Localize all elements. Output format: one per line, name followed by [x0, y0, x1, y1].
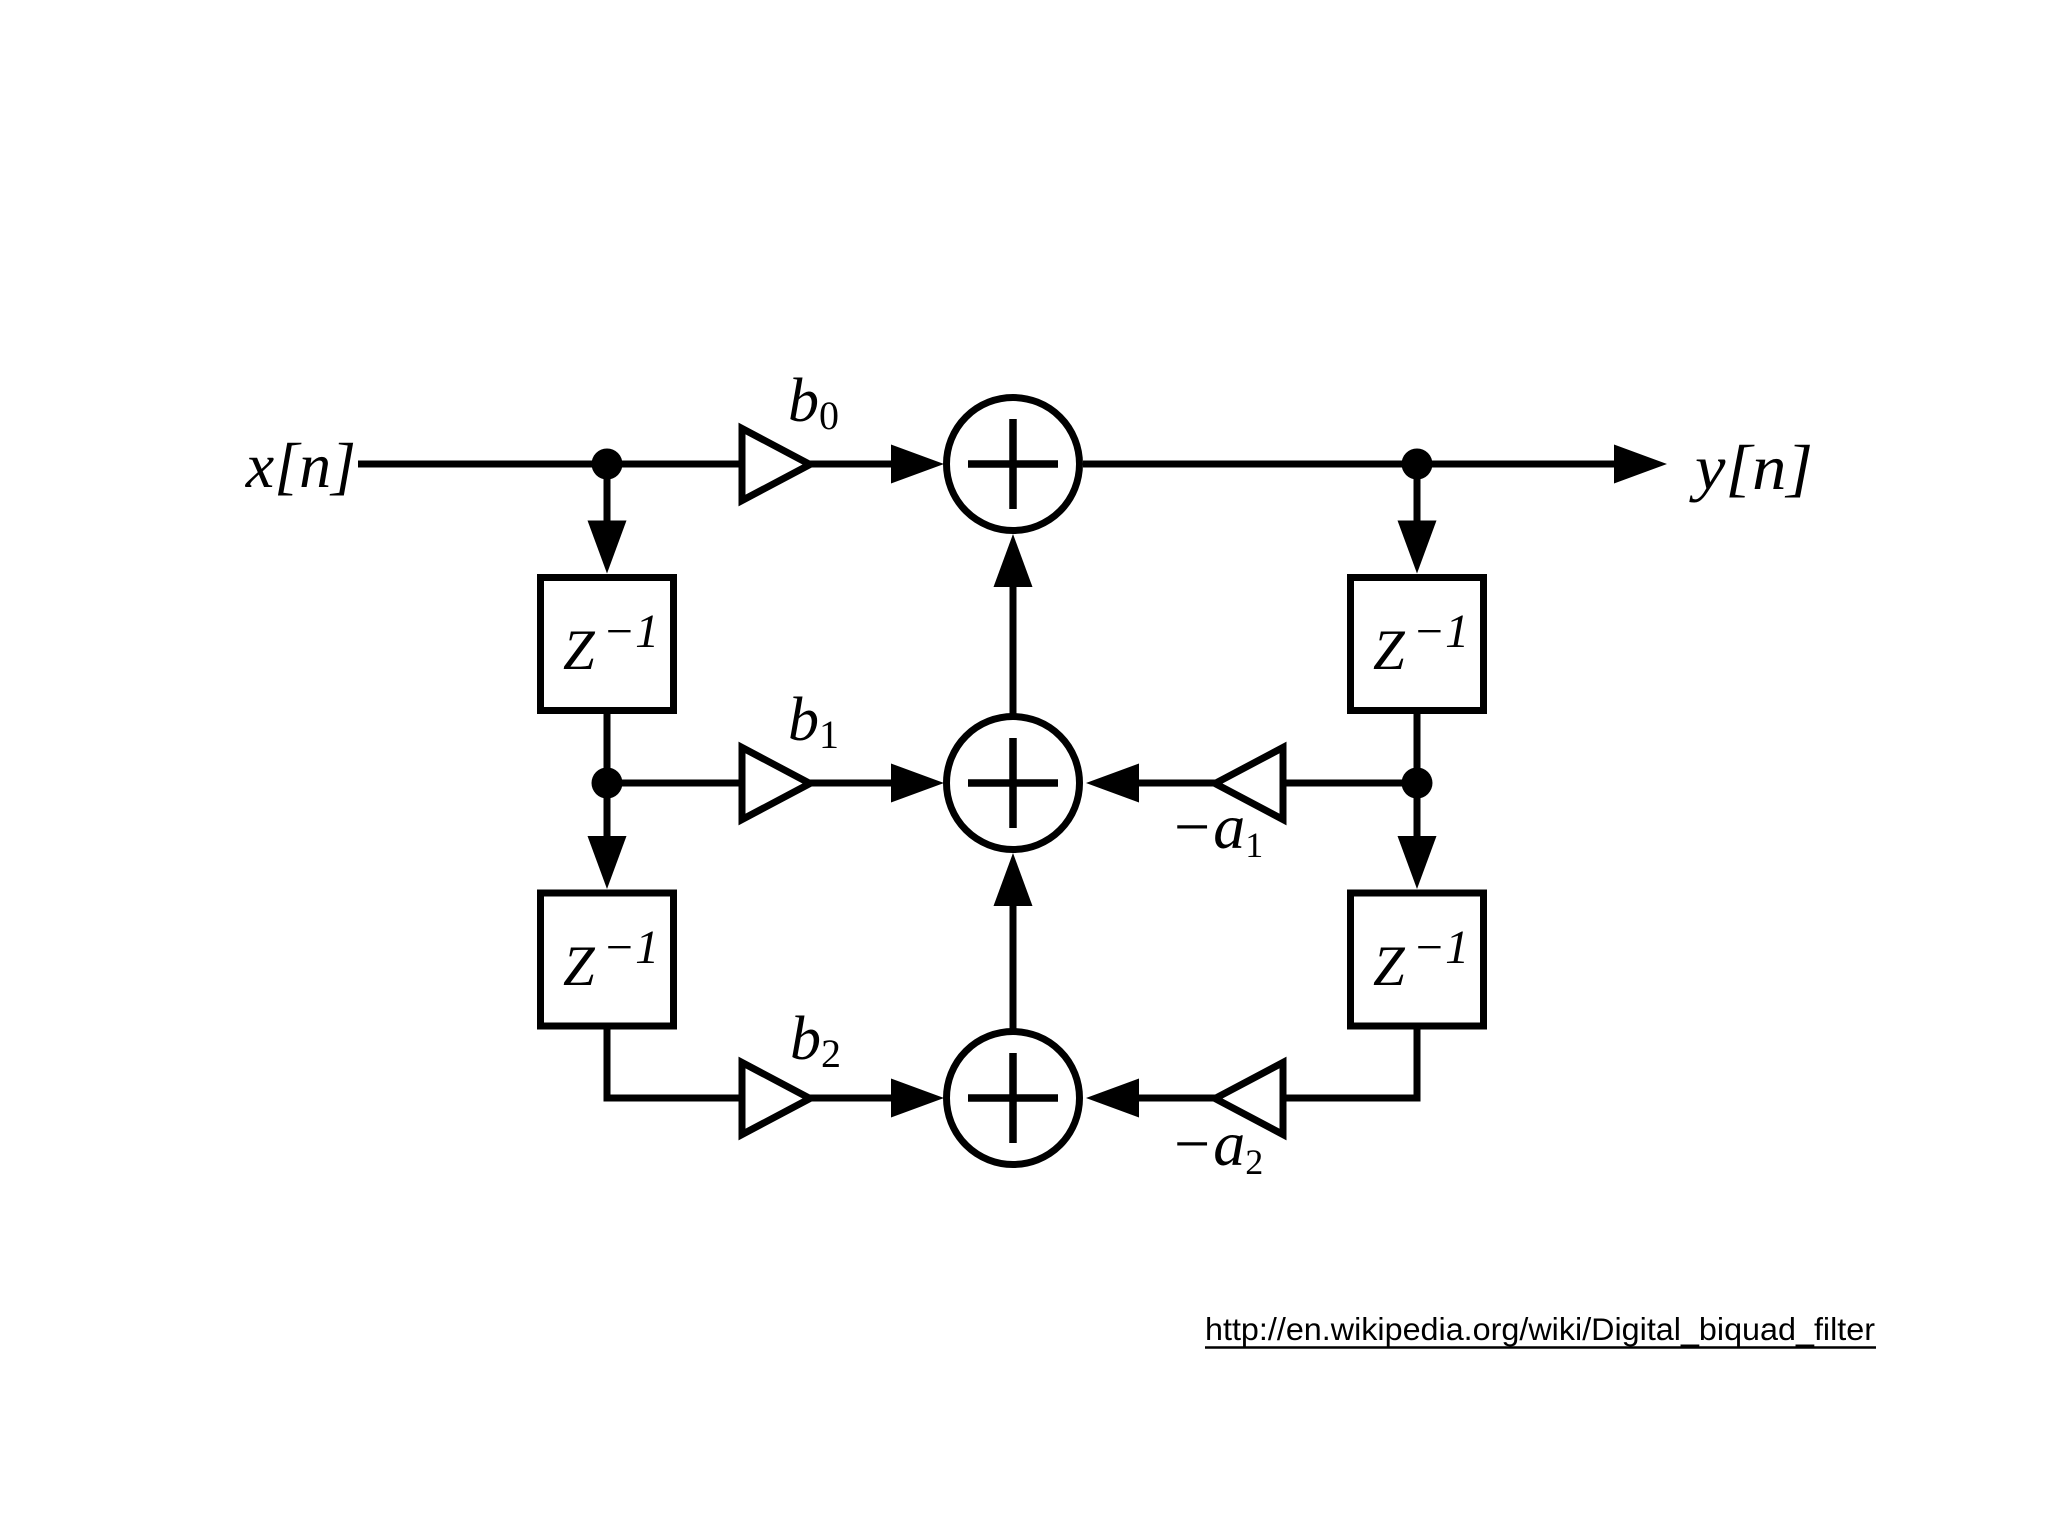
summer S3 — [947, 1032, 1080, 1165]
arrowhead into delay Z1 — [588, 521, 627, 574]
wire summer S1 to output y[n] — [1083, 461, 1616, 468]
arrowhead into delay Z3 — [1398, 521, 1437, 574]
arrowhead summer S3 into summer S2 — [994, 853, 1033, 906]
wire delay Z1 to node B — [604, 714, 611, 786]
summer S2 — [947, 717, 1080, 850]
arrowhead into delay Z2 — [588, 836, 627, 889]
node B junction dot — [592, 768, 623, 799]
arrowhead -a1 into summer S2 — [1086, 764, 1139, 803]
svg-text:b0: b0 — [788, 367, 839, 438]
arrowhead summer S2 into summer S1 — [994, 534, 1033, 587]
wire input x[n] to gain b0 — [358, 461, 745, 468]
node D junction dot — [1402, 768, 1433, 799]
wire node D down to delay Z4 — [1414, 783, 1421, 838]
wire gain b2 to summer S3 — [806, 1095, 895, 1102]
wire node B down to delay Z2 — [604, 783, 611, 838]
wire node D to gain -a1 — [1283, 780, 1417, 787]
gain b1 triangle — [742, 748, 810, 820]
gain -a1 triangle — [1215, 748, 1283, 820]
delay Z2 box — [541, 893, 674, 1026]
summer S1 — [947, 398, 1080, 531]
gain b0 triangle — [742, 429, 810, 501]
arrowhead -a2 into summer S3 — [1086, 1079, 1139, 1118]
svg-text:b1: b1 — [788, 686, 839, 757]
wire delay Z4 to gain -a2 — [1283, 1029, 1417, 1098]
svg-text:x[n]: x[n] — [245, 430, 356, 501]
delay Z3 box — [1351, 578, 1484, 711]
arrowhead into summer S2 — [891, 764, 944, 803]
wire delay Z3 to node D — [1414, 714, 1421, 786]
arrowhead into delay Z4 — [1398, 836, 1437, 889]
wire delay Z2 to gain b2 — [607, 1029, 745, 1098]
arrowhead to output y[n] — [1614, 445, 1667, 484]
wire gain -a2 to summer S3 — [1136, 1095, 1216, 1102]
arrowhead into summer S3 — [891, 1079, 944, 1118]
wire gain -a1 to summer S2 — [1136, 780, 1216, 787]
svg-text:y[n]: y[n] — [1689, 432, 1813, 503]
svg-text:b2: b2 — [790, 1005, 841, 1076]
arrowhead into summer S1 — [891, 445, 944, 484]
wire gain b1 to summer S2 — [806, 780, 895, 787]
url underline — [1205, 1346, 1876, 1349]
delay Z1 box — [541, 578, 674, 711]
svg-text:http://en.wikipedia.org/wiki/D: http://en.wikipedia.org/wiki/Digital_biq… — [1205, 1311, 1875, 1347]
wire node A down to delay Z1 — [604, 464, 611, 523]
wire summer S3 up to summer S2 — [1010, 904, 1017, 1031]
wire node B to gain b1 — [607, 780, 745, 787]
gain b2 triangle — [742, 1063, 810, 1135]
node A junction dot — [592, 449, 623, 480]
wire node C down to delay Z3 — [1414, 464, 1421, 523]
node C junction dot — [1402, 449, 1433, 480]
delay Z4 box — [1351, 893, 1484, 1026]
wire gain b0 to summer S1 — [806, 461, 895, 468]
wire summer S2 up to summer S1 — [1010, 585, 1017, 716]
gain -a2 triangle — [1215, 1063, 1283, 1135]
